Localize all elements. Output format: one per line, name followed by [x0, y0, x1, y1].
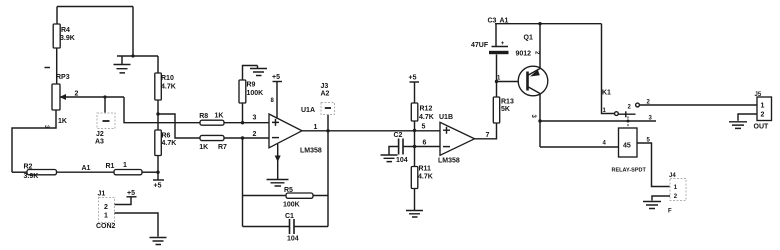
wire base Q1 — [497, 81, 528, 83]
ground at R11 — [406, 211, 423, 218]
svg-text:+5: +5 — [272, 74, 280, 81]
svg-text:RELAY-SPDT: RELAY-SPDT — [612, 168, 647, 174]
node U1A output junction — [326, 129, 329, 132]
svg-text:R6: R6 — [162, 133, 171, 140]
svg-text:2: 2 — [104, 204, 108, 211]
resistor R11 — [411, 166, 432, 189]
svg-text:J1: J1 — [98, 191, 106, 198]
resistor R9 — [239, 80, 263, 103]
svg-text:3: 3 — [253, 115, 257, 122]
wire C2 to ground — [389, 147, 399, 155]
transistor Q1 — [516, 35, 548, 119]
ground at J5 — [729, 122, 747, 129]
svg-text:+5: +5 — [409, 75, 417, 82]
wire R8 to pin3 — [224, 122, 269, 124]
svg-text:J3: J3 — [321, 83, 329, 90]
relay K1 coil — [612, 128, 647, 174]
svg-text:F: F — [668, 209, 672, 215]
wire RP3 bottom to left loop — [12, 110, 56, 172]
wire wiper to R8 — [124, 97, 200, 123]
resistor R13 — [493, 97, 514, 123]
svg-text:5: 5 — [422, 124, 426, 131]
wire R9 bottom lead — [242, 103, 244, 123]
svg-text:R1: R1 — [106, 163, 115, 170]
svg-text:R2: R2 — [24, 164, 33, 171]
wire top rail right — [495, 23, 602, 25]
node relay throw-3 junction — [627, 120, 630, 123]
wire R13 top lead — [496, 82, 498, 98]
wire J1 pin1 to ground — [115, 213, 159, 237]
resistor R6 — [155, 130, 176, 156]
svg-text:+5: +5 — [127, 190, 135, 197]
wire R9 top to ground — [243, 66, 258, 81]
wire tee horizontal — [117, 55, 158, 57]
svg-text:1: 1 — [123, 162, 127, 169]
resistor R4 — [53, 24, 75, 48]
svg-text:9012: 9012 — [516, 51, 532, 58]
svg-text:+: + — [501, 41, 505, 47]
wire Q1 emitter vertical — [539, 24, 541, 69]
svg-text:OUT: OUT — [754, 124, 770, 131]
svg-text:R11: R11 — [419, 166, 432, 173]
svg-text:A3: A3 — [95, 139, 104, 146]
wire coil pin4 line — [540, 146, 619, 148]
svg-text:1: 1 — [104, 213, 108, 220]
svg-text:6: 6 — [423, 140, 427, 147]
power +5 at R12 — [409, 75, 420, 104]
wire R11 to ground — [414, 189, 416, 211]
wire R6 bottom lead — [157, 156, 159, 173]
connector J4 — [668, 173, 686, 215]
svg-text:R10: R10 — [161, 75, 174, 82]
wire top-left rail — [57, 6, 133, 8]
power pin4 U1A to ground — [267, 144, 289, 186]
svg-text:LM358: LM358 — [438, 158, 460, 165]
svg-text:1: 1 — [314, 124, 318, 131]
wire J2 stub — [104, 97, 106, 113]
wire contact-2 to J5 — [639, 104, 757, 106]
svg-text:A1: A1 — [82, 165, 91, 172]
wire J1 pin2 to +5 — [115, 197, 132, 205]
svg-text:J2: J2 — [96, 131, 104, 138]
capacitor C2 — [394, 132, 408, 164]
resistor R12 — [411, 103, 433, 121]
connector J2 — [95, 113, 115, 146]
node top tee junction — [131, 54, 134, 57]
wire node A1 — [57, 171, 115, 173]
svg-text:2: 2 — [75, 91, 79, 98]
svg-text:+5: +5 — [154, 183, 162, 190]
wire divider to R7 — [158, 114, 200, 138]
capacitor C1 — [243, 213, 329, 243]
svg-text:104: 104 — [287, 236, 299, 243]
node Q1 base junction — [495, 80, 498, 83]
svg-text:R7: R7 — [218, 144, 227, 151]
svg-text:R9: R9 — [247, 82, 256, 89]
wire mid vertical from top rail — [132, 7, 134, 57]
svg-text:4.7K: 4.7K — [162, 140, 177, 147]
ground at J1 — [150, 238, 167, 245]
resistor R5 — [243, 187, 329, 209]
resistor R1 — [106, 162, 143, 175]
svg-text:J5: J5 — [755, 92, 762, 98]
pin1 dash RP3 — [45, 67, 51, 69]
svg-text:1K: 1K — [58, 118, 67, 125]
wire R1 right lead — [142, 171, 158, 173]
wire C2 to pin6 — [403, 146, 440, 148]
ground top-middle — [114, 56, 131, 73]
wire R4 top lead — [56, 7, 58, 25]
node divider junction — [156, 112, 159, 115]
wire C3 top to rail — [495, 24, 497, 47]
svg-text:CON2: CON2 — [96, 223, 116, 230]
svg-text:45: 45 — [623, 143, 631, 150]
resistor R2 — [24, 164, 57, 180]
svg-text:104: 104 — [396, 157, 408, 164]
svg-text:R5: R5 — [284, 187, 293, 194]
svg-text:47UF: 47UF — [471, 42, 489, 49]
op-amp U1B — [438, 114, 475, 165]
svg-text:LM358: LM358 — [300, 148, 322, 155]
svg-text:J4: J4 — [669, 173, 676, 179]
relay K1 contacts — [602, 24, 640, 128]
node R12 junction — [413, 129, 416, 132]
wire feedback right vertical — [327, 131, 329, 227]
svg-text:100K: 100K — [283, 202, 300, 209]
power +5 below R6 — [153, 172, 164, 189]
svg-text:1K: 1K — [215, 113, 224, 120]
wire R4 to RP3 — [56, 48, 58, 84]
wire R10 top lead — [157, 56, 159, 73]
svg-text:4.7K: 4.7K — [161, 84, 176, 91]
node pin6 junction — [413, 145, 416, 148]
connector J1 — [96, 191, 116, 231]
svg-text:U1A: U1A — [301, 107, 315, 114]
node R1-R6 junction — [156, 171, 159, 174]
svg-text:3.9K: 3.9K — [60, 35, 75, 42]
connector J5 — [754, 92, 772, 131]
svg-text:3.9K: 3.9K — [24, 173, 39, 180]
wire U1A output — [302, 130, 440, 132]
wire R10 to R6 — [157, 100, 159, 130]
node collector junction — [538, 119, 541, 122]
svg-text:R12: R12 — [420, 106, 433, 113]
svg-text:R4: R4 — [61, 27, 70, 34]
svg-text:4.7K: 4.7K — [418, 174, 433, 181]
wire RP3 wiper — [60, 96, 124, 98]
wire R7 to pin2 — [224, 137, 269, 139]
svg-text:7: 7 — [486, 132, 490, 139]
power +5 at J1 — [127, 190, 137, 197]
svg-text:U1B: U1B — [439, 114, 453, 121]
node emitter rail junction — [538, 22, 541, 25]
wire contact-3 line — [540, 120, 656, 122]
svg-text:R13: R13 — [501, 99, 514, 106]
svg-text:1: 1 — [761, 103, 765, 110]
wire R2 left lead — [12, 171, 27, 173]
wire vertical to R11 — [414, 131, 416, 167]
op-amp U1A — [269, 107, 322, 155]
wire U1B output pin7 — [475, 123, 497, 139]
wire feedback left vertical — [242, 138, 244, 227]
svg-text:A2: A2 — [321, 91, 330, 98]
resistor R7 — [199, 135, 227, 151]
svg-text:K1: K1 — [602, 90, 611, 97]
node feedback junction pin2 — [241, 136, 244, 139]
svg-text:2: 2 — [761, 112, 765, 119]
capacitor C3 — [471, 18, 509, 82]
potentiometer RP3 — [52, 74, 70, 125]
node R9 junction pin3 — [241, 121, 244, 124]
ground at J4 — [643, 202, 661, 209]
svg-text:100K: 100K — [247, 90, 264, 97]
svg-text:C1: C1 — [285, 213, 294, 220]
wire Q1 collector vertical — [539, 94, 541, 147]
svg-text:5K: 5K — [501, 106, 510, 113]
svg-text:Q1: Q1 — [524, 35, 533, 42]
wire R12 bottom lead — [414, 121, 416, 131]
resistor R10 — [155, 73, 176, 100]
connector J3 — [321, 83, 335, 115]
wire J3 stub — [327, 115, 329, 131]
svg-text:4.7K: 4.7K — [419, 114, 434, 121]
wire coil pin5 to J4 — [637, 143, 670, 187]
svg-text:RP3: RP3 — [56, 74, 70, 81]
svg-text:1K: 1K — [199, 144, 208, 151]
svg-text:C2: C2 — [394, 132, 403, 139]
ground at R9 — [250, 66, 267, 76]
resistor R8 — [199, 113, 224, 126]
svg-text:R8: R8 — [199, 113, 208, 120]
wire J5 pin2 to ground — [738, 114, 757, 121]
node J2 tap — [103, 95, 106, 98]
power +5 pin8 U1A — [271, 74, 283, 119]
svg-text:2: 2 — [253, 131, 257, 138]
wire J4 pin2 to ground — [652, 196, 670, 201]
ground at C2 — [381, 155, 398, 162]
